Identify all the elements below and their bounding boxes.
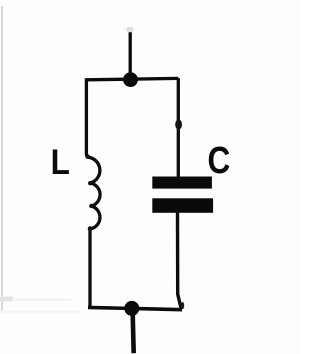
label C — [207, 139, 230, 181]
noise blob at bottom-right corner — [181, 302, 184, 309]
wire: bottom lead — [133, 310, 134, 353]
svg-text:L: L — [51, 144, 70, 183]
scan noise (decorative, unlabeled) — [1, 6, 3, 312]
svg-text:C: C — [207, 139, 230, 181]
label L — [51, 144, 70, 183]
wire: bottom horizontal — [88, 307, 182, 309]
wire: top horizontal — [86, 78, 178, 79]
wire: right branch lower — [178, 212, 182, 309]
node: top junction — [123, 72, 138, 87]
wire: right branch upper — [177, 78, 180, 178]
inductor L (left branch) — [86, 78, 100, 307]
node: bottom junction — [124, 301, 139, 316]
capacitor C: top plate — [152, 177, 212, 189]
wire: top lead — [129, 32, 132, 79]
blob on right branch wire — [175, 119, 182, 129]
capacitor C: bottom plate — [152, 198, 213, 213]
